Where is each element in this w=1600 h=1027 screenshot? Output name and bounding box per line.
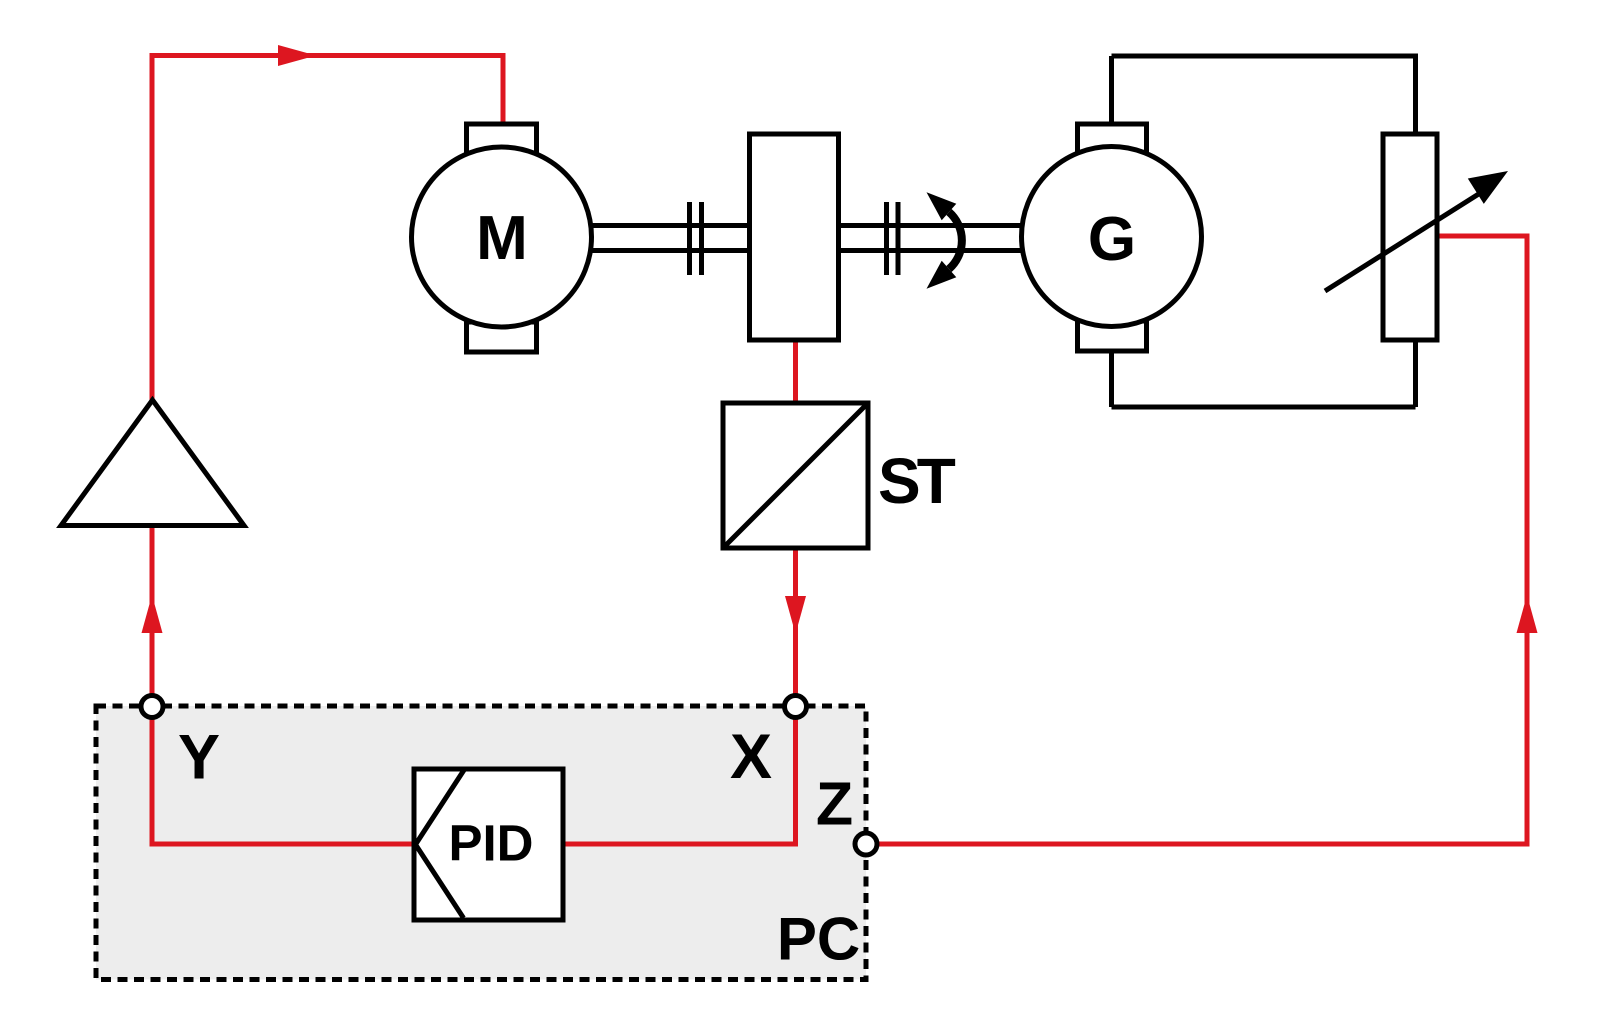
svg-text:ST: ST	[878, 445, 956, 517]
svg-text:Y: Y	[178, 723, 220, 793]
svg-text:M: M	[476, 204, 528, 273]
svg-text:Z: Z	[816, 770, 853, 838]
svg-text:PC: PC	[777, 906, 860, 973]
svg-text:G: G	[1088, 205, 1136, 274]
svg-text:PID: PID	[448, 815, 533, 872]
svg-text:X: X	[730, 722, 772, 792]
